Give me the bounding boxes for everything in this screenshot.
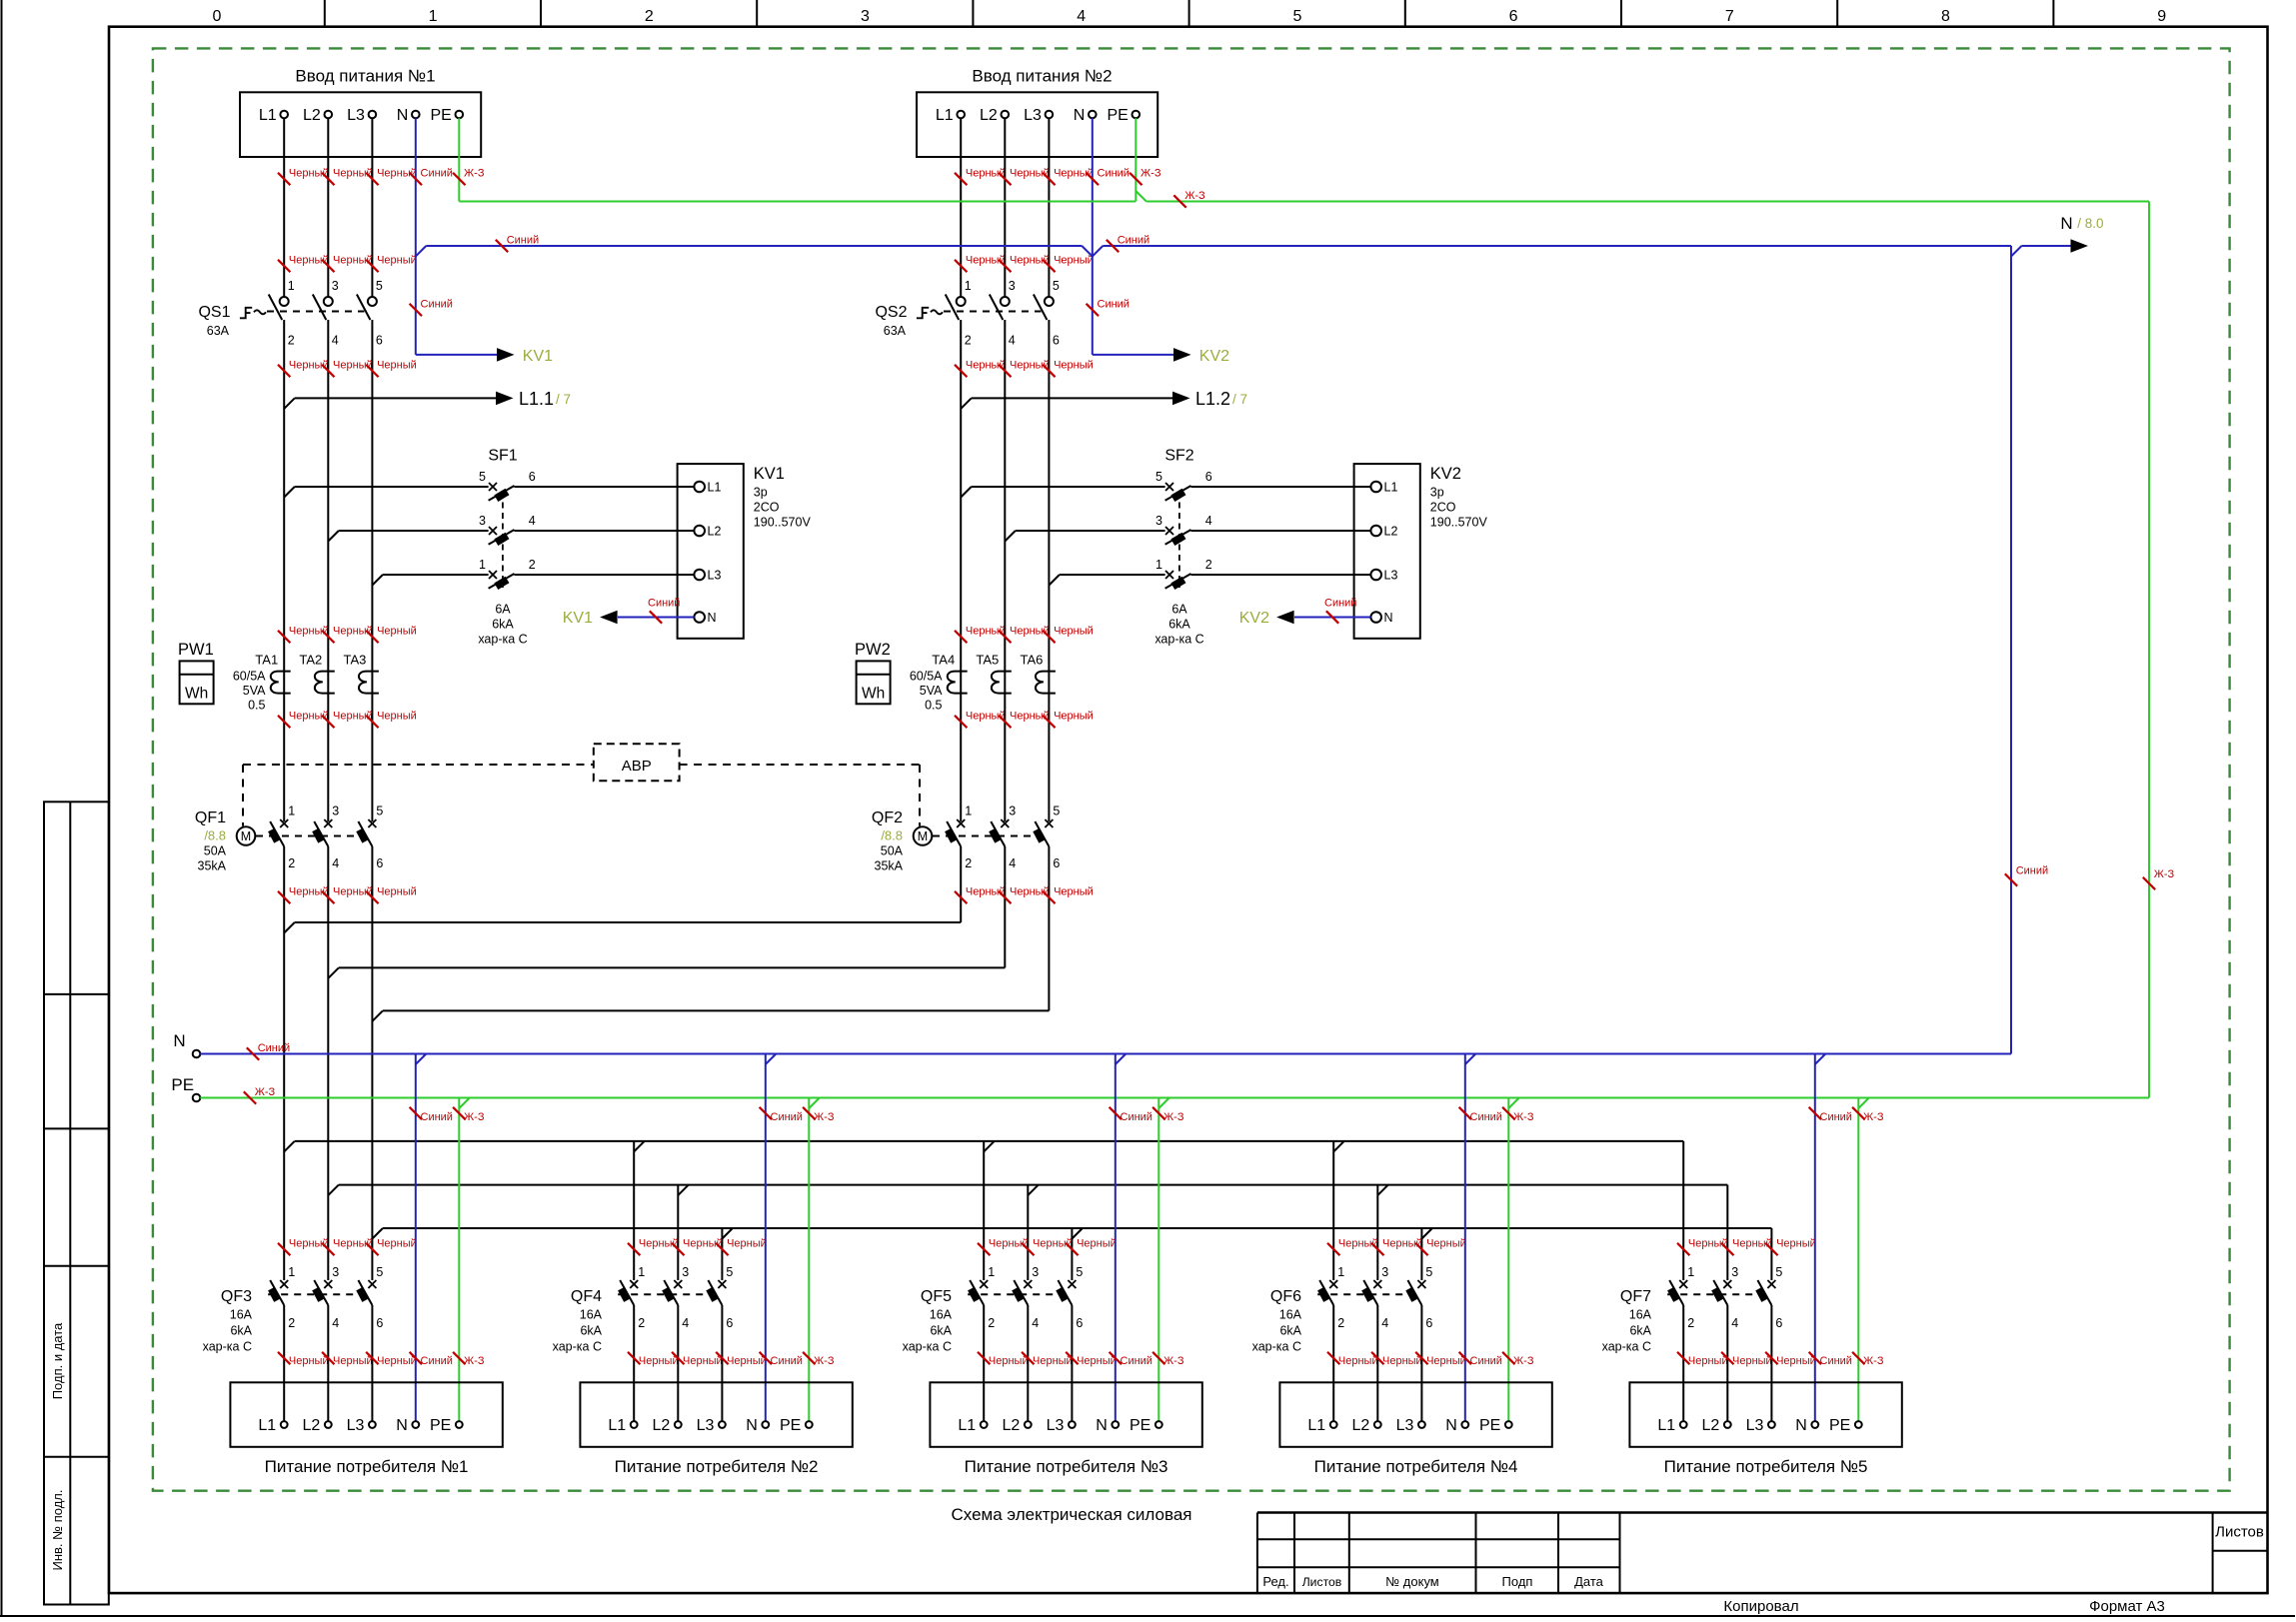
- svg-text:QF7: QF7: [1620, 1288, 1651, 1305]
- svg-text:Синий: Синий: [1121, 1355, 1152, 1367]
- svg-text:35kА: 35kА: [198, 859, 227, 873]
- left stamp column: [44, 802, 109, 1604]
- svg-text:L2: L2: [1003, 1417, 1021, 1434]
- wire branch 5 phase L3 from bus: [1770, 1228, 1772, 1280]
- wire QF5 output L3: [1071, 1305, 1073, 1421]
- input terminal box Ввод питания №2: [917, 92, 1157, 157]
- svg-text:PW1: PW1: [178, 641, 214, 659]
- svg-text:Питание потребителя №5: Питание потребителя №5: [1664, 1457, 1868, 1476]
- wire input2 N (blue): [1092, 118, 1094, 355]
- svg-text:TA5: TA5: [976, 653, 999, 668]
- wire branch 2 phase L2 from bus: [677, 1185, 679, 1280]
- wire QF2 pole3 output to tie bus: [1048, 846, 1050, 1010]
- svg-text:6kА: 6kА: [230, 1324, 252, 1338]
- svg-text:16А: 16А: [1629, 1308, 1652, 1322]
- svg-text:6kА: 6kА: [1629, 1324, 1651, 1338]
- svg-text:L3: L3: [1746, 1417, 1764, 1434]
- svg-text:1: 1: [988, 1265, 995, 1279]
- svg-text:2CO: 2CO: [1430, 501, 1456, 515]
- svg-text:5: 5: [1425, 1265, 1432, 1279]
- svg-text:1: 1: [1687, 1265, 1694, 1279]
- PE riser right side: [2148, 202, 2150, 1098]
- svg-text:L2: L2: [303, 1417, 321, 1434]
- wire branch 3 phase L3 from bus: [1071, 1228, 1073, 1280]
- svg-text:6: 6: [1775, 1316, 1782, 1330]
- wire branch 5 phase L2 from bus: [1726, 1185, 1728, 1280]
- svg-text:Wh: Wh: [862, 686, 885, 703]
- svg-text:/8.8: /8.8: [204, 828, 226, 843]
- svg-text:N: N: [708, 611, 717, 625]
- svg-text:Синий: Синий: [1820, 1111, 1852, 1123]
- svg-text:L3: L3: [347, 107, 365, 124]
- wire QS1 pole1 down: [283, 320, 285, 821]
- wire tap QS2 pole3 to SF2: [1049, 575, 1060, 586]
- PE tie bus (green, top): [459, 201, 1136, 203]
- svg-text:1: 1: [288, 279, 295, 293]
- svg-text:6kА: 6kА: [492, 618, 514, 632]
- svg-text:Ж-З: Ж-З: [1163, 1111, 1184, 1123]
- svg-text:2: 2: [288, 856, 295, 870]
- wire tap QS2 pole1 to SF2: [961, 487, 972, 498]
- wire slash marks QF4 input L1: [628, 1243, 640, 1255]
- svg-text:35kА: 35kА: [875, 859, 904, 873]
- svg-text:2: 2: [645, 8, 654, 25]
- svg-text:Листов: Листов: [1302, 1575, 1342, 1589]
- svg-text:Черный: Черный: [1054, 255, 1094, 267]
- svg-text:M: M: [918, 829, 928, 843]
- wire input2 phase L3 to QS2: [1048, 118, 1050, 297]
- svg-text:60/5А: 60/5А: [910, 670, 943, 684]
- svg-text:/8.8: /8.8: [881, 828, 903, 843]
- svg-text:N: N: [173, 1031, 185, 1050]
- breaker SF2: [1165, 483, 1173, 491]
- svg-text:4: 4: [332, 334, 339, 348]
- wire branch 4 PE drop: [1508, 1098, 1519, 1109]
- svg-text:3: 3: [1731, 1265, 1738, 1279]
- svg-text:N: N: [2060, 214, 2072, 233]
- svg-text:L3: L3: [1047, 1417, 1065, 1434]
- svg-text:L1: L1: [259, 107, 277, 124]
- svg-text:KV1: KV1: [754, 465, 785, 483]
- svg-text:6: 6: [376, 1316, 383, 1330]
- svg-text:L2: L2: [1702, 1417, 1720, 1434]
- svg-text:4: 4: [1077, 8, 1086, 25]
- wire branch 2 phase L3 from bus: [721, 1228, 723, 1280]
- wire slash marks QF6 input L2: [1371, 1243, 1383, 1255]
- svg-text:хар-ка C: хар-ка C: [203, 1340, 252, 1354]
- svg-text:Инв. № подл.: Инв. № подл.: [50, 1490, 65, 1571]
- svg-text:Черный: Черный: [1054, 711, 1094, 723]
- wire QS1 pole3 down: [371, 320, 373, 821]
- wire input1 phase L3 to QS1: [371, 118, 373, 297]
- svg-text:63А: 63А: [884, 324, 907, 338]
- svg-text:Черный: Черный: [1382, 1355, 1422, 1367]
- current transformer TA3: [359, 672, 379, 694]
- svg-text:1: 1: [429, 8, 438, 25]
- distribution bus phase L2: [328, 1185, 339, 1196]
- svg-text:4: 4: [332, 1316, 339, 1330]
- svg-text:5: 5: [1053, 805, 1060, 818]
- QF2 motor drive M: [914, 826, 933, 845]
- svg-text:3: 3: [332, 805, 339, 818]
- svg-text:5VA: 5VA: [920, 684, 943, 698]
- svg-text:L2: L2: [653, 1417, 671, 1434]
- svg-text:8: 8: [1941, 8, 1950, 25]
- svg-text:16А: 16А: [1279, 1308, 1302, 1322]
- svg-text:Черный: Черный: [727, 1238, 767, 1250]
- wire slash marks QF7 input L1: [1677, 1243, 1689, 1255]
- svg-text:5: 5: [376, 1265, 383, 1279]
- svg-text:2: 2: [965, 856, 972, 870]
- wire QS2 pole1 down: [960, 320, 962, 821]
- relay KV1 box: [678, 464, 744, 639]
- svg-text:3: 3: [479, 514, 486, 528]
- svg-text:Черный: Черный: [377, 1355, 417, 1367]
- wire QF2 pole1 output to tie bus: [960, 846, 962, 922]
- svg-text:хар-ка C: хар-ка C: [903, 1340, 952, 1354]
- svg-text:АВР: АВР: [622, 758, 652, 775]
- svg-text:Черный: Черный: [1426, 1238, 1466, 1250]
- wire QS2 pole3 down: [1048, 320, 1050, 821]
- svg-text:Черный: Черный: [289, 1355, 329, 1367]
- svg-text:6А: 6А: [495, 603, 511, 617]
- wire slash marks QF4 input L3: [716, 1243, 728, 1255]
- consumer terminal box 2: [580, 1382, 852, 1447]
- svg-text:Ж-З: Ж-З: [1513, 1355, 1534, 1367]
- wire QF6 output L2: [1376, 1305, 1378, 1421]
- wire branch 3 phase L2 from bus: [1027, 1185, 1029, 1280]
- svg-text:Черный: Черный: [727, 1355, 767, 1367]
- wire branch 5 phase L1 from bus: [1682, 1141, 1684, 1280]
- svg-text:L1: L1: [936, 107, 954, 124]
- wire slash marks QF5 input L2: [1022, 1243, 1034, 1255]
- KV1 terminal L2: [694, 526, 705, 537]
- svg-text:2: 2: [988, 1316, 995, 1330]
- wire slash marks QF7 input L3: [1765, 1243, 1777, 1255]
- svg-text:L1.2: L1.2: [1195, 389, 1230, 409]
- svg-text:Питание потребителя №1: Питание потребителя №1: [265, 1457, 469, 1476]
- wire branch 3 phase L1 from bus: [983, 1141, 985, 1280]
- N tie bus (blue, top): [416, 246, 427, 257]
- tie bus phase L3 QF1-QF2: [372, 1010, 383, 1021]
- svg-text:PE: PE: [171, 1075, 194, 1094]
- arrow to KV1 coil: [416, 354, 498, 356]
- svg-text:Черный: Черный: [377, 711, 417, 723]
- svg-text:L1.1: L1.1: [519, 389, 554, 409]
- wire branch 3 N drop: [1116, 1054, 1127, 1065]
- svg-text:6kА: 6kА: [580, 1324, 602, 1338]
- svg-text:6kА: 6kА: [930, 1324, 952, 1338]
- svg-text:5: 5: [1292, 8, 1301, 25]
- svg-text:6kА: 6kА: [1279, 1324, 1301, 1338]
- svg-text:KV2: KV2: [1430, 465, 1461, 483]
- svg-text:TA3: TA3: [344, 653, 367, 668]
- svg-text:Черный: Черный: [1054, 626, 1094, 638]
- svg-text:L3: L3: [1024, 107, 1042, 124]
- svg-text:0.5: 0.5: [248, 699, 265, 713]
- svg-text:N: N: [396, 1417, 408, 1434]
- svg-text:4: 4: [1032, 1316, 1039, 1330]
- svg-text:3: 3: [1009, 279, 1016, 293]
- KV2 terminal L3: [1370, 570, 1381, 581]
- svg-text:L1: L1: [958, 1417, 976, 1434]
- svg-text:Синий: Синий: [1121, 1111, 1152, 1123]
- svg-text:2: 2: [529, 558, 536, 572]
- svg-text:3: 3: [332, 1265, 339, 1279]
- wire input1 phase L2 to QS1: [327, 118, 329, 297]
- N distribution bus (blue): [200, 1053, 2011, 1055]
- svg-text:PE: PE: [1479, 1417, 1500, 1434]
- svg-text:L1: L1: [1307, 1417, 1325, 1434]
- svg-text:6: 6: [1509, 8, 1518, 25]
- svg-text:6: 6: [376, 856, 383, 870]
- svg-text:QF2: QF2: [872, 810, 903, 826]
- KV1 N wire to coil arrow: [618, 617, 694, 619]
- KV1 terminal L3: [694, 570, 705, 581]
- N riser right side: [2010, 246, 2012, 1054]
- svg-text:Ж-З: Ж-З: [814, 1355, 835, 1367]
- svg-text:16А: 16А: [930, 1308, 953, 1322]
- svg-text:3: 3: [1155, 514, 1162, 528]
- svg-text:N: N: [1096, 1417, 1108, 1434]
- wire branch 5 PE drop: [1858, 1098, 1869, 1109]
- wire slash marks QF3 input L3: [366, 1243, 378, 1255]
- svg-text:4: 4: [529, 514, 536, 528]
- svg-text:6: 6: [376, 334, 383, 348]
- consumer terminal box 1: [230, 1382, 502, 1447]
- svg-text:PE: PE: [1130, 1417, 1150, 1434]
- svg-text:Черный: Черный: [377, 886, 417, 898]
- svg-text:Подп. и дата: Подп. и дата: [50, 1322, 65, 1399]
- svg-text:7: 7: [1725, 8, 1734, 25]
- wire QF3 output L3: [371, 1305, 373, 1421]
- svg-text:9: 9: [2157, 8, 2166, 25]
- svg-text:Ж-З: Ж-З: [1141, 168, 1161, 180]
- svg-text:PE: PE: [1829, 1417, 1850, 1434]
- wire input1 N (blue): [415, 118, 417, 355]
- wire tap QS1 pole2 to SF1: [328, 531, 339, 542]
- svg-text:2: 2: [1687, 1316, 1694, 1330]
- svg-text:3: 3: [1381, 1265, 1388, 1279]
- svg-text:Ж-З: Ж-З: [2154, 868, 2175, 880]
- svg-text:4: 4: [1731, 1316, 1738, 1330]
- svg-text:Ж-З: Ж-З: [464, 1355, 485, 1367]
- svg-text:Черный: Черный: [1054, 886, 1094, 898]
- svg-text:SF1: SF1: [488, 448, 517, 465]
- svg-text:L1: L1: [1384, 480, 1398, 494]
- svg-text:QF6: QF6: [1270, 1288, 1301, 1305]
- wire input1 PE (green): [458, 118, 460, 201]
- svg-text:Черный: Черный: [1077, 1355, 1117, 1367]
- wire QF3 output L2: [327, 1305, 329, 1421]
- svg-text:/ 7: / 7: [1232, 392, 1247, 407]
- svg-text:Синий: Синий: [1324, 598, 1356, 610]
- svg-text:Черный: Черный: [639, 1355, 679, 1367]
- svg-text:TA6: TA6: [1021, 653, 1044, 668]
- svg-text:Черный: Черный: [1338, 1355, 1378, 1367]
- svg-text:L3: L3: [697, 1417, 715, 1434]
- svg-text:хар-ка C: хар-ка C: [478, 633, 527, 647]
- svg-text:QF1: QF1: [195, 810, 226, 826]
- svg-text:190..570V: 190..570V: [754, 516, 812, 530]
- svg-text:KV2: KV2: [1199, 348, 1229, 365]
- svg-text:2: 2: [288, 334, 295, 348]
- svg-text:Дата: Дата: [1574, 1574, 1604, 1589]
- svg-text:5: 5: [1053, 279, 1060, 293]
- svg-text:Черный: Черный: [377, 1238, 417, 1250]
- svg-text:KV1: KV1: [563, 610, 593, 627]
- wire slash marks QF3 input L2: [322, 1243, 334, 1255]
- breaker QF3: [280, 1280, 288, 1288]
- wire input2 PE (green): [1135, 118, 1137, 201]
- svg-text:TA1: TA1: [255, 653, 278, 668]
- svg-text:TA4: TA4: [932, 653, 955, 668]
- svg-text:L2: L2: [1352, 1417, 1370, 1434]
- branch arrow L1.1: [284, 398, 295, 409]
- wire slash marks QF6 input L3: [1415, 1243, 1427, 1255]
- svg-text:5: 5: [726, 1265, 733, 1279]
- svg-text:6: 6: [1076, 1316, 1083, 1330]
- svg-text:3p: 3p: [754, 486, 768, 500]
- wire input2 phase L2 to QS2: [1004, 118, 1006, 297]
- svg-text:L3: L3: [1396, 1417, 1414, 1434]
- tie bus phase L1 QF1-QF2: [284, 922, 295, 933]
- svg-text:Копировал: Копировал: [1723, 1598, 1798, 1615]
- svg-text:2: 2: [638, 1316, 645, 1330]
- wire QF7 output L3: [1770, 1305, 1772, 1421]
- svg-text:Черный: Черный: [1776, 1238, 1816, 1250]
- svg-text:60/5А: 60/5А: [233, 670, 266, 684]
- ABP link dashed QF1: [242, 765, 244, 826]
- svg-text:Ж-З: Ж-З: [1184, 190, 1205, 202]
- wire tap QS2 pole2 to SF2: [1005, 531, 1016, 542]
- ABP link dashed QF2: [680, 764, 920, 766]
- svg-text:Ж-З: Ж-З: [1863, 1355, 1884, 1367]
- arrow to KV2 coil: [1093, 354, 1174, 356]
- svg-text:Черный: Черный: [1776, 1355, 1816, 1367]
- svg-text:1: 1: [638, 1265, 645, 1279]
- svg-text:Питание потребителя №4: Питание потребителя №4: [1314, 1457, 1518, 1476]
- svg-text:1: 1: [288, 805, 295, 818]
- svg-text:N: N: [1074, 107, 1086, 124]
- svg-text:5: 5: [1076, 1265, 1083, 1279]
- svg-text:Ж-З: Ж-З: [814, 1111, 835, 1123]
- svg-text:Схема электрическая силовая: Схема электрическая силовая: [951, 1505, 1191, 1524]
- wire branch 5 N drop: [1815, 1054, 1826, 1065]
- svg-text:Синий: Синий: [1820, 1355, 1852, 1367]
- svg-text:M: M: [241, 829, 251, 843]
- svg-text:5: 5: [376, 279, 383, 293]
- svg-text:Ж-З: Ж-З: [1513, 1111, 1534, 1123]
- svg-text:2CO: 2CO: [754, 501, 780, 515]
- motorized breaker QF1: [280, 819, 288, 827]
- svg-text:1: 1: [1155, 558, 1162, 572]
- wire branch 4 phase L2 from bus: [1376, 1185, 1378, 1280]
- wire QF2 pole2 output to tie bus: [1004, 846, 1006, 967]
- wire QS2 pole2 down: [1004, 320, 1006, 821]
- svg-text:Ред.: Ред.: [1262, 1574, 1288, 1589]
- svg-text:1: 1: [1337, 1265, 1344, 1279]
- svg-text:Листов: Листов: [2215, 1524, 2264, 1541]
- svg-text:1: 1: [965, 805, 972, 818]
- svg-text:190..570V: 190..570V: [1430, 516, 1488, 530]
- svg-text:Черный: Черный: [1732, 1355, 1772, 1367]
- KV2 terminal N: [1370, 612, 1381, 623]
- wire branch 4 phase L3 from bus: [1420, 1228, 1422, 1280]
- svg-text:6: 6: [529, 470, 536, 484]
- svg-text:хар-ка C: хар-ка C: [1252, 1340, 1301, 1354]
- wire slash marks QF5 input L1: [978, 1243, 990, 1255]
- svg-text:L1: L1: [258, 1417, 276, 1434]
- wire QF5 output L2: [1027, 1305, 1029, 1421]
- svg-text:50А: 50А: [881, 844, 904, 858]
- svg-text:6: 6: [1053, 334, 1060, 348]
- svg-text:хар-ка C: хар-ка C: [1154, 633, 1203, 647]
- svg-text:4: 4: [1009, 334, 1016, 348]
- svg-text:Черный: Черный: [377, 360, 417, 372]
- wire branch 2 PE drop: [809, 1098, 820, 1109]
- svg-text:2: 2: [1337, 1316, 1344, 1330]
- distribution bus phase L1: [284, 1141, 295, 1152]
- svg-text:Подп: Подп: [1502, 1574, 1533, 1589]
- svg-text:L3: L3: [347, 1417, 365, 1434]
- svg-text:/ 8.0: / 8.0: [2077, 216, 2103, 231]
- svg-text:L3: L3: [708, 568, 722, 582]
- svg-text:Синий: Синий: [771, 1355, 803, 1367]
- svg-text:Синий: Синий: [648, 598, 680, 610]
- QF1 motor drive M: [237, 826, 256, 845]
- wire tap QS1 pole1 to SF1: [284, 487, 295, 498]
- tie bus phase L2 QF1-QF2: [328, 967, 339, 978]
- svg-text:3: 3: [332, 279, 339, 293]
- consumer terminal box 5: [1629, 1382, 1901, 1447]
- svg-text:Черный: Черный: [1077, 1238, 1117, 1250]
- title block table: [1257, 1511, 2268, 1513]
- breaker QF5: [980, 1280, 988, 1288]
- wire slash marks QF6 input L1: [1327, 1243, 1339, 1255]
- wire QF7 output L2: [1726, 1305, 1728, 1421]
- motorized breaker QF2: [957, 819, 965, 827]
- svg-text:PW2: PW2: [855, 641, 891, 659]
- svg-text:TA2: TA2: [299, 653, 322, 668]
- svg-text:Синий: Синий: [1118, 235, 1149, 247]
- svg-text:Wh: Wh: [185, 686, 208, 703]
- svg-text:L2: L2: [303, 107, 321, 124]
- svg-text:6: 6: [726, 1316, 733, 1330]
- svg-text:/ 7: / 7: [556, 392, 571, 407]
- svg-text:5: 5: [1775, 1265, 1782, 1279]
- svg-text:Синий: Синий: [1098, 299, 1130, 311]
- KV1 terminal L1: [694, 482, 705, 493]
- wire branch 2 N drop: [766, 1054, 777, 1065]
- svg-text:Питание потребителя №2: Питание потребителя №2: [615, 1457, 819, 1476]
- svg-text:3: 3: [1032, 1265, 1039, 1279]
- svg-text:Ж-З: Ж-З: [255, 1086, 276, 1098]
- svg-text:QS1: QS1: [198, 304, 230, 321]
- svg-text:2: 2: [288, 1316, 295, 1330]
- current transformer TA1: [271, 672, 291, 694]
- svg-text:6: 6: [1425, 1316, 1432, 1330]
- svg-text:Ввод питания №1: Ввод питания №1: [295, 67, 435, 86]
- branch arrow L1.2: [961, 398, 972, 409]
- wire input1 phase L1 to QS1: [283, 118, 285, 297]
- svg-text:Синий: Синий: [2016, 865, 2048, 877]
- svg-text:хар-ка C: хар-ка C: [553, 1340, 602, 1354]
- wire QF1 pole3 output down to QF3: [371, 846, 373, 1280]
- svg-text:L1: L1: [1657, 1417, 1675, 1434]
- svg-text:16А: 16А: [580, 1308, 603, 1322]
- svg-text:PE: PE: [430, 107, 451, 124]
